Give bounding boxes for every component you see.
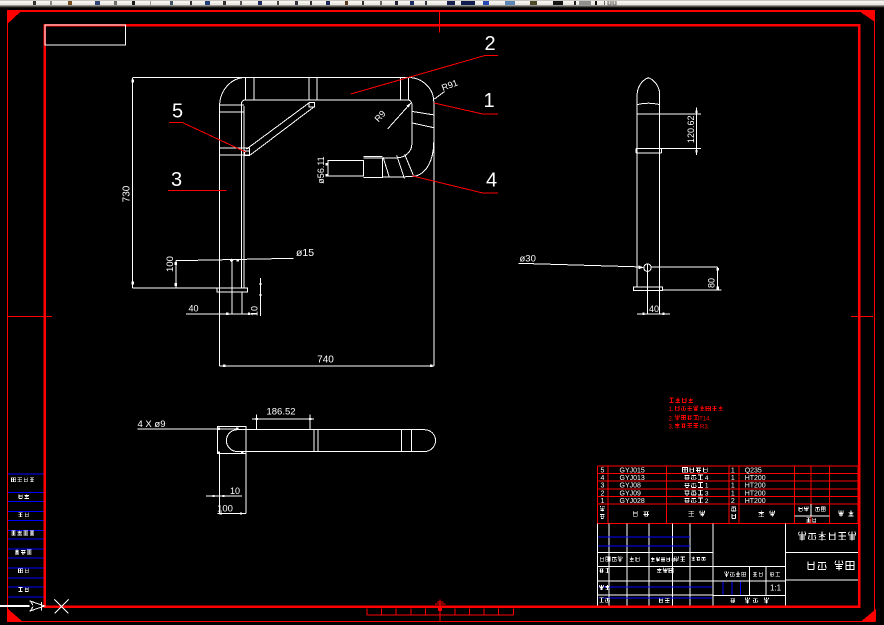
svg-text:120.62: 120.62 — [686, 116, 696, 144]
svg-text:4: 4 — [705, 475, 709, 482]
svg-text:10: 10 — [230, 486, 240, 496]
svg-text:1: 1 — [601, 498, 605, 505]
svg-text:5: 5 — [601, 467, 605, 474]
svg-text:1:1: 1:1 — [770, 584, 782, 593]
svg-text:40: 40 — [649, 304, 659, 314]
svg-text:ø30: ø30 — [520, 254, 536, 265]
svg-text:GYJ08: GYJ08 — [620, 483, 642, 490]
svg-text:ø56.11: ø56.11 — [316, 156, 326, 183]
svg-text:1: 1 — [483, 90, 494, 112]
svg-text:1: 1 — [731, 483, 735, 490]
svg-text:10: 10 — [249, 306, 259, 316]
svg-text:ø15: ø15 — [296, 247, 314, 259]
svg-text:3: 3 — [705, 490, 709, 497]
svg-text:Q235: Q235 — [745, 467, 762, 474]
svg-text:1: 1 — [731, 467, 735, 474]
svg-text:186.52: 186.52 — [266, 407, 295, 418]
svg-text:3.: 3. — [669, 424, 674, 430]
svg-text:2: 2 — [601, 490, 605, 497]
svg-text:2: 2 — [484, 33, 495, 55]
svg-text:GYJ015: GYJ015 — [620, 467, 645, 474]
svg-text:GYJ09: GYJ09 — [620, 490, 642, 497]
svg-text:5: 5 — [172, 101, 183, 123]
svg-text:100: 100 — [165, 256, 176, 272]
svg-text:730: 730 — [122, 185, 133, 202]
svg-text:4 X ø9: 4 X ø9 — [138, 419, 166, 430]
svg-text:3: 3 — [171, 169, 182, 191]
svg-text:HT200: HT200 — [745, 498, 766, 505]
svg-text:1: 1 — [731, 475, 735, 482]
svg-text:GYJ013: GYJ013 — [620, 475, 645, 482]
svg-text:1: 1 — [731, 490, 735, 497]
svg-text:2: 2 — [705, 498, 709, 505]
svg-text:740: 740 — [317, 355, 334, 366]
svg-text:100: 100 — [217, 504, 233, 515]
svg-text:4: 4 — [486, 170, 497, 192]
svg-text:HT200: HT200 — [745, 490, 766, 497]
svg-text:1.: 1. — [669, 407, 674, 413]
svg-text:1: 1 — [705, 483, 709, 490]
svg-text:HT200: HT200 — [745, 483, 766, 490]
svg-text:HT200: HT200 — [745, 475, 766, 482]
svg-text:40: 40 — [188, 304, 198, 314]
svg-text:80: 80 — [707, 278, 717, 288]
svg-text:2.: 2. — [669, 416, 674, 422]
svg-text:IT14.: IT14. — [698, 416, 712, 422]
svg-text:R3.: R3. — [700, 424, 710, 430]
svg-text:3: 3 — [601, 483, 605, 490]
svg-text:2: 2 — [731, 498, 735, 505]
svg-text:4: 4 — [601, 475, 605, 482]
svg-text:GYJ028: GYJ028 — [620, 498, 645, 505]
